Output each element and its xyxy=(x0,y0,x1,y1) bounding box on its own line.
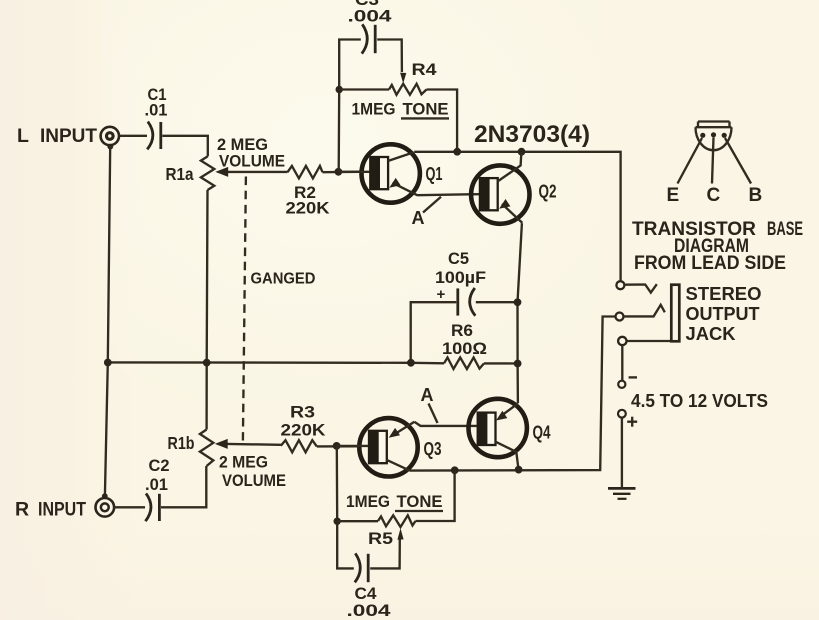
svg-text:FROM LEAD SIDE: FROM LEAD SIDE xyxy=(634,253,786,274)
label TRANSISTOR BASE DIAGRAM FROM LEAD SIDE xyxy=(632,219,803,274)
wire C1 to R1a top xyxy=(162,136,208,157)
tone loop bottom: wire node down, C4 xyxy=(337,446,354,569)
svg-text:Q1: Q1 xyxy=(426,163,443,184)
node dot Q4 collector xyxy=(515,466,523,474)
svg-text:R: R xyxy=(15,499,30,521)
svg-text:A: A xyxy=(421,385,434,405)
svg-text:INPUT: INPUT xyxy=(38,499,86,521)
wire R4 right down to rail xyxy=(427,90,458,152)
svg-text:220K: 220K xyxy=(281,421,327,440)
svg-text:TONE: TONE xyxy=(397,492,443,511)
transistor Q4 xyxy=(469,399,527,470)
svg-text:BASE: BASE xyxy=(767,219,803,240)
ganged dashed link xyxy=(243,177,246,441)
capacitor C4 xyxy=(355,553,368,582)
label C4 .004 xyxy=(347,584,392,620)
R input jack J2 xyxy=(96,493,115,516)
svg-text:C5: C5 xyxy=(448,249,469,268)
label 2 MEG VOLUME (top) xyxy=(217,135,285,171)
svg-text:Q3: Q3 xyxy=(424,438,442,459)
node dot R5/C4 left xyxy=(334,518,341,525)
label C5 100uF + xyxy=(435,249,486,303)
svg-text:220K: 220K xyxy=(286,199,331,218)
svg-text:.004: .004 xyxy=(347,601,392,620)
potentiometer R1b xyxy=(200,430,213,467)
svg-text:R6: R6 xyxy=(451,321,473,340)
svg-text:C2: C2 xyxy=(149,456,170,475)
svg-text:100µF: 100µF xyxy=(435,268,486,287)
stereo jack middle contact xyxy=(616,305,665,321)
capacitor C3 xyxy=(362,24,375,53)
svg-text:Q2: Q2 xyxy=(539,181,557,202)
svg-text:4.5 TO 12 VOLTS: 4.5 TO 12 VOLTS xyxy=(631,390,768,411)
transistor base diagram package xyxy=(678,122,752,184)
labels E C B xyxy=(667,185,763,206)
svg-text:.01: .01 xyxy=(145,101,168,120)
label 1MEG TONE (bottom) xyxy=(346,492,443,511)
bottom rail to jack xyxy=(409,317,615,471)
transistor Q3 xyxy=(337,418,418,476)
wire C4 right to R5 wiper arrow xyxy=(370,528,403,568)
svg-text:JACK: JACK xyxy=(686,324,736,344)
stereo jack bottom contact xyxy=(618,337,671,381)
svg-text:L: L xyxy=(17,125,29,147)
svg-text:B: B xyxy=(749,185,763,206)
ground xyxy=(608,488,636,498)
node dot rail x207 xyxy=(203,359,211,367)
wire R2 to Q1 base xyxy=(323,171,360,174)
wire battery to ground xyxy=(621,418,623,489)
potentiometer R4 xyxy=(389,84,427,95)
resistor R6 xyxy=(444,358,484,370)
L input jack J1 xyxy=(101,127,119,150)
svg-text:VOLUME: VOLUME xyxy=(219,152,285,171)
battery plus terminal xyxy=(618,410,637,427)
wire R5 right up to rail xyxy=(416,470,455,521)
potentiometer R5 xyxy=(378,515,416,527)
svg-text:R5: R5 xyxy=(368,529,393,548)
transistor Q2 xyxy=(471,152,529,224)
label 2 MEG VOLUME (bottom) xyxy=(219,453,286,491)
label L INPUT xyxy=(17,125,97,147)
wire C2 to R1b bottom xyxy=(161,466,206,507)
potentiometer R1a xyxy=(201,156,214,190)
svg-text:INPUT: INPUT xyxy=(40,125,97,147)
svg-text:100Ω: 100Ω xyxy=(442,339,487,358)
node dot R5 top xyxy=(451,466,459,474)
node A wire Q3 emitter to Q4 base xyxy=(414,422,477,426)
capacitor C5 xyxy=(458,288,476,316)
potentiometer R4 wires xyxy=(339,88,389,90)
capacitor C2 xyxy=(145,493,159,521)
stereo jack body bar xyxy=(671,285,679,342)
label R6 100ohm xyxy=(442,321,487,358)
resistor R2 xyxy=(288,166,323,179)
wire R jack to C2 xyxy=(114,506,145,508)
label A with pointer (top) xyxy=(412,197,442,228)
capacitor C1 xyxy=(147,122,161,150)
svg-text:1MEG: 1MEG xyxy=(346,492,390,511)
label C3 .004 (cut at top) xyxy=(348,0,393,26)
svg-text:STEREO: STEREO xyxy=(686,284,762,304)
wire R6 right xyxy=(484,362,518,364)
node dot R4/C3 left xyxy=(336,86,343,93)
svg-text:GANGED: GANGED xyxy=(251,271,316,288)
svg-text:C: C xyxy=(707,185,721,206)
svg-text:.004: .004 xyxy=(348,7,393,26)
svg-text:R4: R4 xyxy=(412,60,438,79)
wire L jack down to rail and R jack xyxy=(105,147,110,496)
stereo jack top contact xyxy=(616,281,656,292)
node dot base Q3 xyxy=(333,442,341,450)
svg-text:.01: .01 xyxy=(145,475,168,494)
node A wire Q1 emitter to Q2 base xyxy=(417,194,480,195)
node dot rail left xyxy=(453,148,461,156)
node dot base Q1 xyxy=(335,168,343,176)
svg-text:TONE: TONE xyxy=(403,100,449,119)
ground rail with R6 xyxy=(108,361,444,364)
svg-text:R3: R3 xyxy=(290,403,315,422)
wire C3 right to R4 wiper arrow xyxy=(377,40,406,84)
R1a wiper arrow xyxy=(215,167,287,177)
svg-text:R1b: R1b xyxy=(168,433,195,453)
node dot C5 right xyxy=(514,298,522,306)
label R3 220K xyxy=(281,403,327,440)
node dot rail x518 xyxy=(514,360,522,368)
resistor R3 xyxy=(281,440,317,452)
node dot rail x411 xyxy=(407,359,415,367)
svg-text:OUTPUT: OUTPUT xyxy=(686,304,760,324)
wire C5 right xyxy=(476,301,518,303)
battery minus terminal xyxy=(618,377,637,388)
wire Q2 emitter down / C5 R6 right vertical / Q4 emitter xyxy=(518,223,522,403)
label STEREO OUTPUT JACK xyxy=(686,284,762,344)
svg-text:Q4: Q4 xyxy=(533,422,552,443)
wire jack to C1 xyxy=(118,135,147,137)
transistor Q1 xyxy=(339,144,420,202)
svg-text:1MEG: 1MEG xyxy=(352,100,396,119)
svg-text:E: E xyxy=(667,185,680,206)
node dot rail x108 xyxy=(104,359,112,367)
capacitor C5 loop left xyxy=(411,302,457,362)
wire R3 to Q3 base xyxy=(317,445,357,447)
node dot rail right xyxy=(518,148,526,156)
wire node up to tone loop xyxy=(339,40,361,172)
label R INPUT xyxy=(15,499,86,521)
R1b wiper arrow xyxy=(215,439,281,449)
potentiometer R5 wires xyxy=(337,520,378,522)
svg-text:2N3703(4): 2N3703(4) xyxy=(474,121,590,148)
label R2 220K xyxy=(286,183,331,218)
svg-text:2 MEG: 2 MEG xyxy=(219,453,268,472)
label 1MEG TONE (top) xyxy=(352,100,450,119)
svg-text:A: A xyxy=(412,208,425,228)
svg-text:VOLUME: VOLUME xyxy=(222,471,286,490)
label C1 .01 xyxy=(145,85,168,120)
label C2 .01 xyxy=(145,456,170,494)
wire below R1a down to rail and R1b xyxy=(205,190,208,430)
svg-text:+: + xyxy=(437,286,446,303)
label A with pointer (bottom) xyxy=(421,385,438,423)
svg-text:R1a: R1a xyxy=(166,164,194,184)
top supply rail xyxy=(414,152,620,281)
